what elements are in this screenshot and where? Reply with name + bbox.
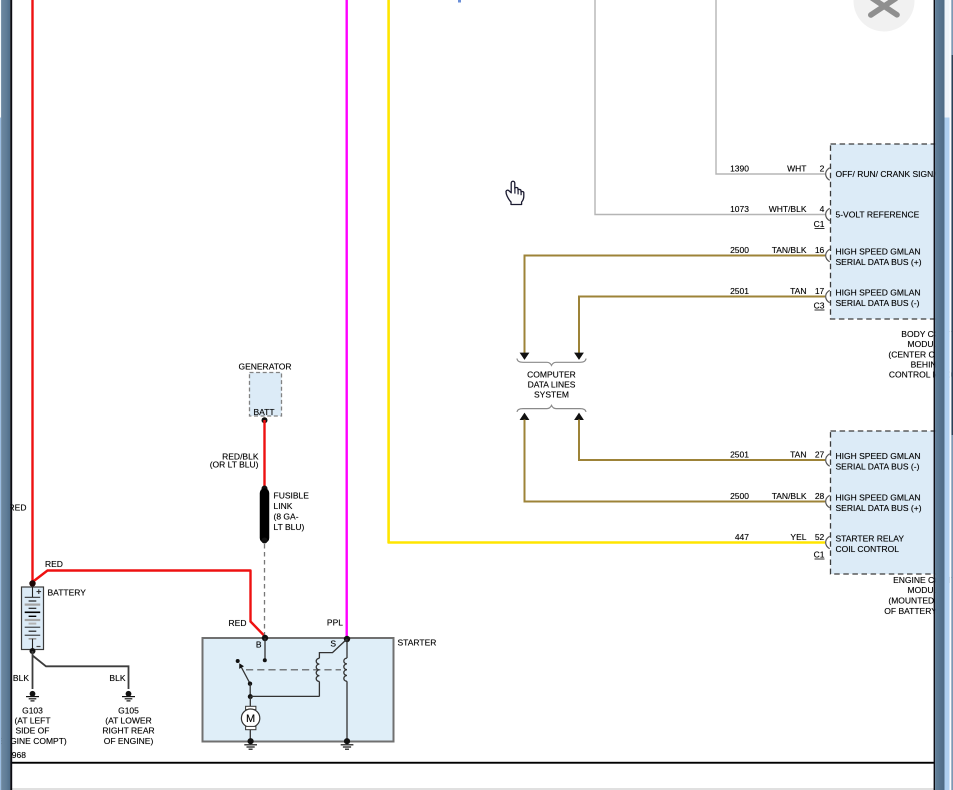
wire TAN/BLK 2500 to pin 28 [520, 413, 825, 502]
label FUSIBLE LINK (8 GA- LT BLU) [274, 491, 310, 533]
svg-text:FUSIBLE: FUSIBLE [274, 491, 310, 501]
node BODY CONTROL MODULE caption (right clipped) [888, 329, 953, 380]
brace upper (computer data lines) [517, 359, 586, 366]
svg-text:LINK: LINK [274, 501, 293, 511]
node B terminal [262, 635, 268, 641]
svg-text:SERIAL DATA BUS (-): SERIAL DATA BUS (-) [836, 461, 920, 471]
svg-text:BATTERY: BATTERY [48, 588, 87, 598]
svg-text:2501: 2501 [730, 286, 749, 296]
svg-text:5-VOLT REFERENCE: 5-VOLT REFERENCE [836, 210, 920, 220]
ECM dashed box [831, 431, 937, 574]
svg-text:968: 968 [12, 750, 26, 760]
pin 16 [730, 245, 922, 267]
svg-text:PPL: PPL [327, 618, 343, 628]
svg-text:OF ENGINE): OF ENGINE) [104, 736, 154, 746]
svg-text:C1: C1 [814, 219, 825, 229]
svg-text:(CENTER OF: (CENTER OF [888, 349, 940, 359]
svg-text:SIDE OF: SIDE OF [15, 726, 49, 736]
generator G1 dashed box [238, 362, 291, 418]
svg-text:HIGH SPEED GMLAN: HIGH SPEED GMLAN [836, 451, 921, 461]
node COMPUTER DATA LINES SYSTEM [527, 369, 576, 399]
svg-text:BATT: BATT [253, 407, 274, 417]
svg-text:BLK: BLK [13, 673, 29, 683]
BCM dashed box [831, 144, 937, 319]
top speck [458, 0, 461, 3]
svg-text:LT BLU): LT BLU) [274, 522, 305, 532]
chrome: close button [854, 0, 915, 32]
svg-text:DATA LINES: DATA LINES [528, 379, 576, 389]
ground G103 [26, 691, 39, 701]
pin 17 with C3 [730, 286, 920, 311]
svg-text:RIGHT REAR: RIGHT REAR [102, 726, 154, 736]
svg-text:WHT: WHT [787, 164, 806, 174]
svg-text:2500: 2500 [730, 491, 749, 501]
svg-text:SERIAL DATA BUS (-): SERIAL DATA BUS (-) [836, 298, 920, 308]
hold-in winding [344, 639, 347, 741]
ground starter solenoid [341, 738, 354, 749]
svg-text:52: 52 [815, 532, 825, 542]
wire WHT/BLK 1073 [595, 0, 825, 215]
svg-text:COIL CONTROL: COIL CONTROL [836, 544, 900, 554]
motor M [241, 697, 259, 741]
svg-text:(8 GA-: (8 GA- [274, 512, 299, 522]
label RED/BLK (OR LT BLU) [210, 452, 259, 470]
wire junction to pull-in coil [250, 695, 319, 697]
wire TAN 2501 to pin 27 [574, 413, 825, 460]
pin 4 with C1 [730, 204, 920, 229]
node fusible link top dot [262, 486, 268, 492]
svg-text:HIGH SPEED GMLAN: HIGH SPEED GMLAN [836, 246, 921, 256]
wire WHT 1390 [716, 0, 825, 174]
svg-text:HIGH SPEED GMLAN: HIGH SPEED GMLAN [836, 287, 921, 297]
wire B internal [264, 638, 266, 660]
diagram bottom border [12, 762, 935, 764]
svg-text:BLK: BLK [109, 673, 125, 683]
svg-text:2500: 2500 [730, 245, 749, 255]
svg-text:SERIAL DATA BUS (+): SERIAL DATA BUS (+) [836, 257, 922, 267]
ground starter motor [244, 738, 257, 749]
wire PPL magenta (vertical) [346, 0, 348, 637]
svg-text:G103: G103 [22, 706, 43, 716]
wire TAN/BLK 2500 to pin 16 [520, 256, 825, 360]
bottom edge shading [12, 788, 935, 790]
svg-text:YEL: YEL [790, 532, 806, 542]
brace lower [517, 405, 586, 412]
svg-text:17: 17 [815, 286, 825, 296]
wire BLK to G105 [33, 656, 129, 690]
svg-text:RED: RED [229, 618, 247, 628]
svg-text:1390: 1390 [730, 164, 749, 174]
svg-text:S: S [330, 638, 336, 648]
pull-in winding [316, 639, 347, 696]
wire BLK to G103 [32, 651, 34, 689]
starter box [203, 638, 394, 742]
svg-text:(OR LT BLU): (OR LT BLU) [210, 459, 259, 469]
svg-text:27: 27 [815, 450, 825, 460]
svg-text:447: 447 [735, 532, 749, 542]
wire TAN 2501 to pin 17 [574, 297, 825, 360]
pin 28 [730, 491, 922, 513]
svg-text:16: 16 [815, 245, 825, 255]
battery [22, 587, 44, 650]
wire YEL 447 [389, 0, 825, 543]
fusible link F [262, 493, 268, 544]
wire RED/BLK generator [263, 420, 265, 488]
svg-text:B: B [256, 640, 262, 650]
svg-text:OFF/ RUN/ CRANK SIGNAL: OFF/ RUN/ CRANK SIGNAL [836, 169, 944, 179]
pin 52 with C1 [735, 532, 905, 560]
label G103 (AT LEFT SIDE OF ENGINE COMPT) [0, 706, 67, 746]
wire RED battery feed (vertical from top) [33, 0, 266, 637]
svg-text:1073: 1073 [730, 204, 749, 214]
svg-text:C1: C1 [814, 550, 825, 560]
label G105 (AT LOWER RIGHT REAR OF ENGINE) [102, 706, 154, 746]
node BATT terminal dot [262, 417, 268, 423]
svg-text:TAN/BLK: TAN/BLK [772, 245, 807, 255]
svg-text:C3: C3 [814, 301, 825, 311]
svg-text:TAN: TAN [790, 450, 806, 460]
ground G105 [122, 691, 135, 701]
svg-text:28: 28 [815, 491, 825, 501]
svg-text:2501: 2501 [730, 450, 749, 460]
svg-text:TAN/BLK: TAN/BLK [772, 491, 807, 501]
switch solenoid contact [236, 659, 253, 686]
svg-text:RED: RED [45, 559, 63, 569]
svg-text:WHT/BLK: WHT/BLK [769, 204, 807, 214]
svg-text:2: 2 [820, 164, 825, 174]
mechanical link dashed [246, 669, 341, 671]
svg-text:M: M [246, 713, 255, 725]
pin 2 [730, 164, 944, 181]
wire dashed to starter B [264, 544, 266, 637]
svg-text:G105: G105 [118, 706, 139, 716]
svg-text:GENERATOR: GENERATOR [238, 362, 291, 372]
svg-text:STARTER: STARTER [398, 638, 437, 648]
wire to motor junction [249, 684, 251, 697]
svg-text:(AT LOWER: (AT LOWER [105, 716, 151, 726]
node S terminal [344, 636, 350, 642]
cursor hand pointer [506, 181, 524, 204]
pin 27 [730, 450, 920, 472]
svg-text:(AT LEFT: (AT LEFT [14, 716, 50, 726]
svg-text:COMPUTER: COMPUTER [527, 369, 576, 379]
svg-text:4: 4 [820, 204, 825, 214]
svg-text:SYSTEM: SYSTEM [534, 390, 569, 400]
svg-text:HIGH SPEED GMLAN: HIGH SPEED GMLAN [836, 492, 921, 502]
node battery negative dot [30, 648, 36, 654]
chrome: left panel strip [0, 0, 12, 790]
svg-text:SERIAL DATA BUS (+): SERIAL DATA BUS (+) [836, 503, 922, 513]
node red junction at battery + [29, 580, 35, 586]
svg-text:STARTER RELAY: STARTER RELAY [836, 533, 905, 543]
node ENGINE CONTROL MODULE caption (right clipped) [884, 575, 953, 616]
svg-text:TAN: TAN [790, 286, 806, 296]
chrome: right scrollbar [934, 0, 953, 790]
